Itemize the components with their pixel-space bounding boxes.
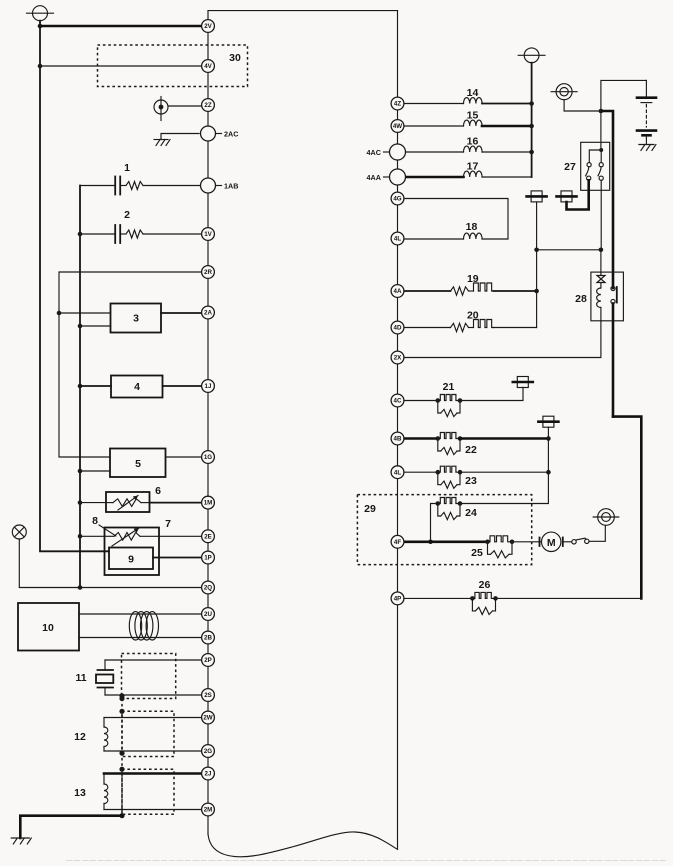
node junction B+/4V (38, 64, 43, 69)
terminal 2Z (202, 99, 215, 112)
terminal 2S (202, 689, 215, 702)
component 4 box (111, 376, 163, 398)
wire x80 to box5 lower-left (80, 470, 110, 472)
wire 4F feed (404, 540, 488, 543)
wire relay28 coil to 2X (404, 321, 601, 358)
svg-text:10: 10 (42, 622, 54, 634)
svg-text:2P: 2P (204, 657, 212, 664)
svg-text:4G: 4G (393, 196, 401, 203)
terminal 4L (391, 466, 404, 479)
svg-text:21: 21 (443, 381, 455, 393)
svg-text:4F: 4F (394, 539, 401, 546)
wire x80 to box3 lower-left (80, 325, 111, 327)
wire 2R to left rail x59 (59, 272, 202, 457)
battery (vehicle) (645, 80, 647, 97)
svg-text:2J: 2J (205, 771, 212, 778)
svg-text:1G: 1G (204, 454, 212, 461)
switch (fan) (563, 541, 572, 543)
wire shield rail dashed (121, 699, 123, 816)
terminal 1P (202, 551, 215, 564)
svg-text:4B: 4B (394, 436, 402, 443)
component 10 box (18, 603, 79, 651)
terminal 2M (202, 803, 215, 816)
wire x80 to comp8 (80, 535, 105, 537)
battery feed terminal (top right) (524, 48, 539, 63)
svg-text:2R: 2R (204, 269, 212, 276)
svg-text:1M: 1M (204, 500, 213, 507)
wire B+ to terminal 2V (40, 25, 202, 28)
svg-text:2M: 2M (204, 807, 213, 814)
wire box10 to 2U (79, 613, 202, 615)
terminal 4F (391, 535, 404, 548)
svg-text:M: M (547, 537, 556, 549)
terminal 1AB (201, 178, 216, 193)
svg-text:2X: 2X (394, 355, 402, 362)
wire left-bus to right-bus top jog (208, 11, 398, 26)
svg-text:1P: 1P (204, 555, 212, 562)
svg-text:1V: 1V (204, 231, 212, 238)
wire x536 down to comps 19/20 (536, 250, 538, 328)
fuse connector (21) (517, 377, 528, 388)
component 30 dashed box (98, 45, 248, 87)
wire left rail x80 (79, 186, 81, 588)
wire box3 to 2A (161, 312, 202, 314)
wire junction to main relay feed (thick) (601, 111, 613, 288)
connector symbol (check terminal) left of 2Z (154, 100, 168, 114)
svg-text:22: 22 (465, 444, 477, 456)
svg-text:28: 28 (575, 293, 587, 305)
wire shield to chassis ground (20, 816, 122, 838)
node shield junctions (119, 693, 124, 698)
svg-text:29: 29 (364, 503, 376, 515)
component 7 box (105, 528, 160, 576)
wire bottom wavy break line (208, 832, 397, 857)
svg-text:4A: 4A (394, 288, 402, 295)
svg-text:12: 12 (74, 731, 86, 743)
component 29 dashed box (357, 495, 531, 565)
wire x548 rail (460, 439, 548, 504)
svg-text:9: 9 (128, 554, 134, 566)
svg-text:—·— —·— —·— —·— —·— —·— —·— —·: —·— —·— —·— —·— —·— —·— —·— —·— —·— —·— … (66, 859, 666, 865)
wire x532 rail to coils 14-17 (531, 63, 533, 177)
terminal 4Z (391, 97, 404, 110)
component 3 box (111, 304, 162, 333)
svg-text:1: 1 (124, 162, 130, 174)
terminal 4P (391, 592, 404, 605)
svg-text:2: 2 (124, 209, 130, 221)
svg-text:4L: 4L (394, 236, 401, 243)
terminal 1G (202, 451, 215, 464)
ignition switch symbol (double circle) (598, 509, 615, 526)
svg-text:2Z: 2Z (204, 102, 211, 109)
wire box27 right switch down to node (600, 180, 602, 250)
switch contacts box27 left (587, 163, 591, 167)
wire check-connector to 2Z (168, 105, 202, 107)
wire comp24 to 4F row (431, 504, 438, 542)
svg-text:24: 24 (465, 507, 477, 519)
svg-text:2AC: 2AC (224, 129, 238, 138)
svg-text:2B: 2B (204, 635, 212, 642)
charge lamp symbol (556, 84, 572, 100)
ground (battery) (639, 144, 654, 146)
wire box4 to 1J (163, 385, 202, 387)
wire x80 to box4 (80, 385, 111, 387)
svg-text:4L: 4L (394, 469, 401, 476)
node battery junction (599, 109, 604, 114)
fuse connector (right) (561, 191, 572, 202)
fuse connector (left) (531, 191, 542, 202)
component 13 shield dashed box (122, 769, 174, 814)
wire junction up to battery (601, 80, 647, 111)
svg-text:4Z: 4Z (394, 101, 401, 108)
node junctions y250 (534, 248, 539, 253)
terminal 1J (202, 380, 215, 393)
svg-text:4D: 4D (394, 325, 402, 332)
wire box10 to 2B (79, 637, 202, 639)
wire left connector down (536, 202, 538, 250)
component 6 box variable resistor (106, 492, 150, 512)
svg-text:4AC: 4AC (367, 148, 381, 157)
terminal 4L (391, 232, 404, 245)
wire x59 to box3 upper-left (59, 312, 111, 314)
wire comp13 to 2J (104, 772, 202, 775)
svg-text:2V: 2V (204, 23, 212, 30)
svg-text:2A: 2A (204, 310, 212, 317)
svg-text:2G: 2G (204, 748, 212, 755)
node right bus 4-connector (397, 11, 399, 850)
terminal 1V (202, 228, 215, 241)
svg-text:2E: 2E (204, 533, 212, 540)
node junction x80/comp8 (78, 534, 83, 539)
svg-text:4C: 4C (394, 398, 402, 405)
node junction x80/comp6 (78, 500, 83, 505)
svg-text:25: 25 (471, 547, 483, 559)
component 12 shield dashed box (122, 711, 174, 756)
wire comp12 to 2W (104, 717, 202, 719)
terminal 2B (202, 631, 215, 644)
svg-text:13: 13 (74, 787, 86, 799)
wire comp13 to 2M (104, 809, 202, 811)
node junction 19/x536 (534, 289, 539, 294)
svg-text:26: 26 (479, 579, 491, 591)
diode symbol in 28 (600, 272, 602, 275)
terminal 4G (391, 192, 404, 205)
wire box27 left switch to connector (567, 180, 589, 209)
wire comp26 to main feed (496, 597, 642, 599)
svg-text:1J: 1J (205, 383, 212, 390)
component 9 box (109, 548, 153, 570)
terminal 2V (202, 20, 215, 33)
ground (bottom-left) (11, 837, 29, 839)
wire B+ to terminal 4V (40, 65, 202, 67)
warning lamp (circle-X) (12, 525, 26, 539)
svg-text:2U: 2U (204, 611, 212, 618)
svg-text:4W: 4W (393, 123, 402, 130)
svg-text:2S: 2S (204, 692, 212, 699)
terminal 2G (202, 745, 215, 758)
svg-text:4P: 4P (394, 596, 402, 603)
relay 28 coil input (600, 250, 602, 272)
wire box5 to 1G (166, 456, 202, 458)
svg-text:6: 6 (155, 485, 161, 497)
relay 28 switch (611, 286, 615, 290)
node junction x80/box3 (78, 324, 83, 329)
terminal 2R (202, 266, 215, 279)
svg-text:4: 4 (134, 381, 140, 393)
battery B+ terminal (top-left) (33, 6, 48, 21)
terminal 4V (202, 60, 215, 73)
terminal 4AC (390, 144, 406, 160)
terminal 4B (391, 432, 404, 445)
wire main feed jog to x641 (613, 417, 641, 599)
svg-text:1AB: 1AB (224, 181, 238, 190)
wire lamp to 2Q (19, 539, 201, 588)
svg-text:11: 11 (75, 672, 86, 684)
wire lamp to battery junction (564, 100, 601, 111)
component 5 box (110, 449, 166, 478)
svg-text:18: 18 (466, 221, 478, 233)
svg-text:2Q: 2Q (204, 585, 212, 592)
svg-text:3: 3 (133, 313, 139, 325)
terminal 2U (202, 608, 215, 621)
svg-text:7: 7 (165, 518, 171, 530)
wire 2AC to ground (161, 134, 199, 140)
terminal 2J (202, 767, 215, 780)
svg-text:23: 23 (465, 475, 477, 487)
wire comp6 to 1M (150, 502, 202, 504)
component 11 shield dashed box (122, 654, 176, 699)
terminal 4D (391, 321, 404, 334)
node junction x80/box4 (78, 384, 83, 389)
svg-text:4V: 4V (204, 63, 212, 70)
node junction B+/2V (38, 24, 43, 29)
wire x80 to comp6 (80, 502, 106, 504)
terminal 4W (391, 120, 404, 133)
wire box9 to 1P (153, 557, 202, 559)
node junction x59/comp3 (57, 311, 62, 316)
wire cross link y250 (537, 249, 601, 251)
svg-text:30: 30 (229, 52, 241, 64)
svg-text:8: 8 (92, 515, 98, 527)
terminal 4C (391, 394, 404, 407)
terminal 2Q (202, 581, 215, 594)
wire into box27 (600, 111, 602, 150)
terminal 4A (391, 285, 404, 298)
wire comp11 to 2S (105, 694, 202, 696)
terminal 2P (202, 654, 215, 667)
terminal 2X (391, 351, 404, 364)
node junction x80/2Q wire (78, 585, 83, 590)
wire switch to ignition symbol (589, 525, 605, 541)
relay 28 coil (597, 288, 601, 308)
terminal 1M (202, 496, 215, 509)
inductor choke coil on 2U/2B pair (129, 612, 141, 640)
wire B+ rail down left side (40, 26, 109, 551)
motor M (539, 538, 541, 547)
svg-text:2W: 2W (203, 715, 212, 722)
ground (2AC) (154, 139, 168, 141)
fuse connector (22) (543, 416, 554, 427)
svg-text:5: 5 (135, 458, 141, 470)
node left bus 1/2-connector (207, 26, 209, 834)
terminal 2AC (201, 126, 216, 141)
terminal 2E (202, 530, 215, 543)
node junction x80/box5 (78, 469, 83, 474)
wire comp8 to 2E (159, 535, 202, 537)
wire comp11 to 2P (105, 659, 202, 661)
terminal 2A (202, 306, 215, 319)
node junction rail/comp2 (78, 232, 83, 237)
svg-text:4AA: 4AA (367, 173, 381, 182)
svg-text:27: 27 (564, 161, 576, 173)
switch contacts box27 right (600, 150, 602, 163)
wire comp12 to 2G (104, 750, 202, 752)
terminal 2W (202, 711, 215, 724)
terminal 4AA (390, 169, 406, 185)
